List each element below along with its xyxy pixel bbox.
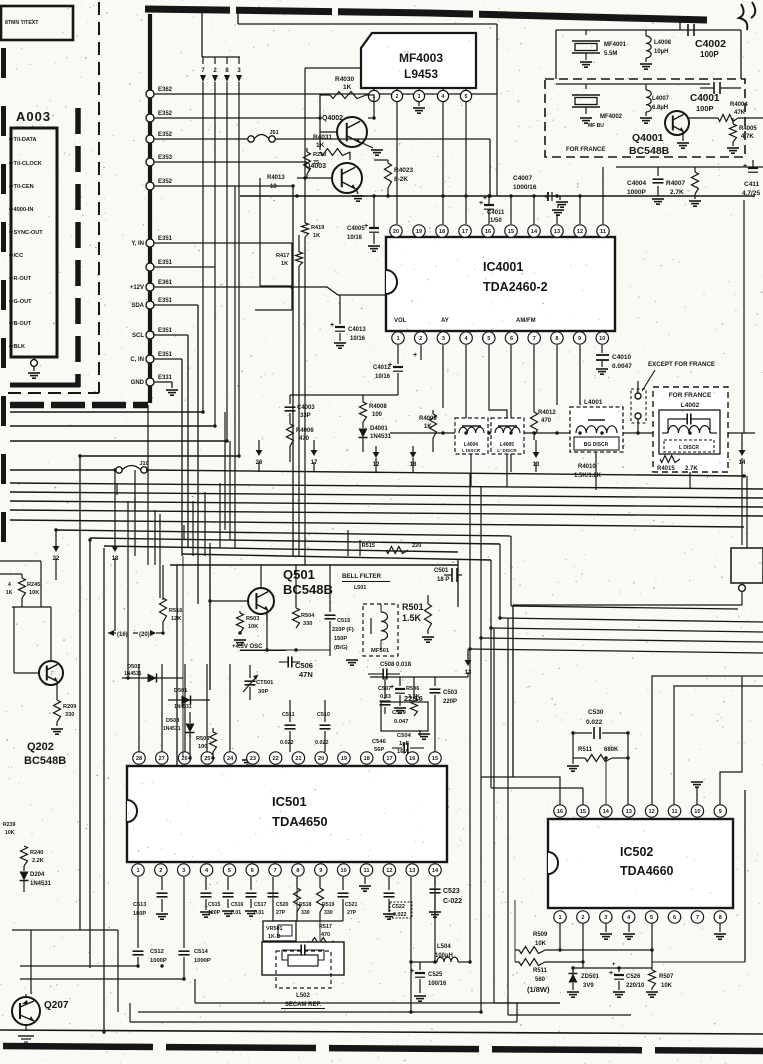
pin12 wire bbox=[652, 676, 763, 805]
capacitor C525 100/16 bbox=[419, 962, 421, 970]
capacitor C4011b pin3 bbox=[442, 345, 444, 408]
svg-text:VOL: VOL bbox=[394, 318, 407, 324]
svg-text:1000P: 1000P bbox=[627, 189, 646, 196]
svg-text:10µH: 10µH bbox=[654, 49, 668, 55]
svg-text:C4004: C4004 bbox=[627, 180, 647, 187]
small box right edge bbox=[746, 476, 748, 548]
svg-text:R504: R504 bbox=[301, 613, 315, 619]
svg-text:56P: 56P bbox=[374, 747, 384, 753]
svg-text:C525: C525 bbox=[428, 972, 443, 978]
arrow 18b bbox=[114, 470, 116, 541]
svg-text:R4006: R4006 bbox=[296, 428, 314, 434]
svg-text:3: 3 bbox=[442, 336, 445, 342]
svg-text:12K: 12K bbox=[171, 616, 181, 622]
svg-text:C4007: C4007 bbox=[513, 175, 533, 182]
svg-text:30P: 30P bbox=[258, 689, 268, 695]
Q501 wires bbox=[260, 565, 262, 588]
connector pin E351 bbox=[146, 301, 154, 309]
resistor R519 330 bbox=[319, 877, 321, 888]
svg-text:E351: E351 bbox=[158, 236, 173, 242]
svg-text:13: 13 bbox=[409, 868, 415, 874]
svg-text:0.01: 0.01 bbox=[231, 910, 241, 916]
svg-text:47N: 47N bbox=[299, 670, 313, 679]
svg-text:1N4531: 1N4531 bbox=[30, 881, 52, 887]
svg-text:0.0047: 0.0047 bbox=[612, 363, 632, 370]
svg-text:BC548B: BC548B bbox=[629, 145, 670, 157]
svg-text:1K: 1K bbox=[6, 590, 13, 596]
resistor R4007 2.7K bbox=[694, 167, 696, 172]
svg-text:L' DISCR: L' DISCR bbox=[497, 448, 517, 453]
svg-text:R511: R511 bbox=[533, 968, 548, 974]
svg-text:100: 100 bbox=[372, 412, 383, 418]
svg-text:C, IN: C, IN bbox=[130, 357, 144, 363]
svg-text:9: 9 bbox=[319, 868, 322, 874]
svg-text:22: 22 bbox=[273, 756, 279, 762]
svg-text:470: 470 bbox=[299, 436, 310, 442]
ground stubs near pins bbox=[242, 759, 254, 761]
svg-text:6.8µH: 6.8µH bbox=[652, 105, 668, 111]
svg-text:+: + bbox=[390, 684, 394, 691]
svg-text:C522: C522 bbox=[392, 904, 405, 910]
connector pin E351 bbox=[146, 355, 154, 363]
svg-text:R239: R239 bbox=[3, 822, 16, 828]
svg-text:10/16: 10/16 bbox=[375, 374, 391, 380]
diode D503 1N4531 bbox=[186, 724, 195, 733]
svg-text:TDA4660: TDA4660 bbox=[620, 864, 674, 878]
connector pin E362 bbox=[146, 90, 154, 98]
capacitor C517 0.01 bbox=[250, 877, 252, 890]
svg-text:L DISCR: L DISCR bbox=[679, 445, 699, 451]
svg-text:5.5M: 5.5M bbox=[604, 51, 617, 57]
svg-text:R-OUT: R-OUT bbox=[14, 276, 32, 282]
top pin bundle 7 2 8 3 bbox=[201, 12, 203, 57]
svg-text:10: 10 bbox=[694, 809, 700, 815]
transistor Q4001 france bbox=[665, 111, 689, 135]
bus line 5 bbox=[10, 510, 763, 516]
capacitor C4004 1000P bbox=[657, 167, 659, 176]
connector pin E352 bbox=[146, 182, 154, 190]
jumper J10 bbox=[116, 467, 122, 473]
svg-text:1K: 1K bbox=[424, 424, 432, 430]
capacitor C526 220/10 bbox=[618, 968, 620, 972]
wires from pin bundle down bbox=[202, 82, 204, 412]
bus wires horizontal staircase bbox=[10, 411, 203, 413]
svg-text:1000/16: 1000/16 bbox=[513, 184, 537, 191]
svg-text:C4003: C4003 bbox=[297, 405, 315, 411]
svg-text:11: 11 bbox=[364, 868, 370, 874]
wire pin3 down bbox=[183, 877, 185, 948]
wire C IN bbox=[154, 358, 182, 360]
left lower wires bbox=[12, 929, 118, 931]
pin11 ground bbox=[364, 877, 366, 884]
mid right verticals down bbox=[469, 473, 471, 962]
svg-text:C514: C514 bbox=[194, 949, 209, 955]
svg-text:C510: C510 bbox=[317, 712, 330, 718]
wire E353 row bbox=[154, 161, 307, 163]
svg-text:10: 10 bbox=[599, 336, 605, 342]
discriminator through wire bbox=[390, 432, 755, 434]
svg-text:J10: J10 bbox=[140, 461, 149, 467]
svg-text:1: 1 bbox=[136, 868, 139, 874]
long node wire y196 bbox=[240, 195, 755, 197]
svg-text:+4.3V OSC: +4.3V OSC bbox=[232, 644, 263, 650]
svg-text:C504: C504 bbox=[397, 733, 412, 739]
svg-text:C521: C521 bbox=[345, 902, 358, 908]
svg-text:470: 470 bbox=[541, 418, 552, 424]
row wire bbox=[273, 920, 343, 922]
svg-text:24: 24 bbox=[227, 756, 234, 762]
svg-text:C516: C516 bbox=[231, 902, 244, 908]
svg-text:Q207: Q207 bbox=[44, 1000, 69, 1011]
bus line 7 bbox=[56, 530, 511, 536]
svg-text:E351: E351 bbox=[158, 328, 173, 334]
wire Y IN bbox=[154, 242, 292, 244]
module box 8TMN T/TEXT bbox=[1, 6, 73, 40]
svg-text:R516: R516 bbox=[169, 608, 182, 614]
svg-text:L4008: L4008 bbox=[654, 40, 672, 46]
resistor R210 75 bbox=[306, 148, 308, 152]
svg-text:L502: L502 bbox=[296, 993, 310, 999]
capacitor C511 0.022 bbox=[289, 700, 291, 722]
svg-text:(16): (16) bbox=[117, 632, 128, 638]
svg-text:C4005: C4005 bbox=[347, 226, 365, 232]
diode D502 1N4531 bbox=[122, 677, 183, 679]
box around secam area bottom bbox=[130, 1021, 517, 1023]
svg-text:FOR FRANCE: FOR FRANCE bbox=[566, 147, 605, 153]
svg-text:10/16: 10/16 bbox=[347, 235, 363, 241]
wire pin14 to L504 bbox=[411, 961, 437, 963]
wires above IC502 bbox=[481, 777, 560, 805]
svg-text:16: 16 bbox=[557, 809, 563, 815]
connector pin E352 bbox=[146, 114, 154, 122]
svg-text:17: 17 bbox=[462, 229, 468, 235]
svg-text:E361: E361 bbox=[158, 280, 173, 286]
svg-text:10: 10 bbox=[270, 184, 277, 190]
svg-text:9: 9 bbox=[578, 336, 581, 342]
transistor Q501 bbox=[248, 588, 274, 614]
svg-text:16V: 16V bbox=[397, 749, 407, 755]
capacitor C4013 10/16 bbox=[339, 295, 341, 324]
diode D204 1N4531 bbox=[20, 872, 29, 881]
svg-text:+: + bbox=[410, 968, 414, 975]
svg-text:1µF: 1µF bbox=[399, 741, 410, 747]
wire to pin14 IC502 bbox=[605, 758, 607, 805]
IC502 bottom wires bbox=[559, 923, 561, 950]
svg-text:220/10: 220/10 bbox=[626, 983, 645, 989]
svg-text:R4023: R4023 bbox=[394, 167, 414, 174]
svg-text:560: 560 bbox=[535, 977, 546, 983]
svg-text:CT501: CT501 bbox=[256, 680, 274, 686]
Q4003 emitter ground bbox=[356, 188, 358, 194]
svg-text:BLK: BLK bbox=[14, 344, 26, 350]
zener ZD501 3V9 bbox=[569, 974, 578, 983]
svg-text:IC4001: IC4001 bbox=[483, 260, 523, 274]
ground at GND pin bbox=[154, 381, 172, 383]
svg-text:7: 7 bbox=[696, 915, 699, 921]
svg-text:R4009: R4009 bbox=[419, 416, 437, 422]
svg-text:4.7/25: 4.7/25 bbox=[742, 190, 760, 197]
svg-text:R4013: R4013 bbox=[267, 175, 285, 181]
block Q501 outline bbox=[170, 564, 458, 566]
discr box tails bbox=[689, 472, 691, 489]
svg-text:L DISCR: L DISCR bbox=[462, 448, 481, 453]
svg-text:C513: C513 bbox=[133, 902, 146, 908]
svg-text:6: 6 bbox=[251, 868, 254, 874]
wires pins 28-24 up bbox=[138, 664, 140, 752]
wire top of caps bbox=[370, 676, 468, 678]
wire pin5 to L4005 bbox=[489, 345, 507, 418]
svg-text:16: 16 bbox=[485, 229, 491, 235]
transistor Q202 bbox=[39, 661, 63, 685]
enclosing box right bbox=[744, 790, 746, 962]
wire pin1 down bbox=[137, 877, 139, 948]
svg-text:R4007: R4007 bbox=[666, 180, 686, 187]
svg-text:C4011: C4011 bbox=[487, 210, 505, 216]
wire stubs left of IC4001 bbox=[259, 178, 261, 286]
svg-text:1000P: 1000P bbox=[150, 958, 167, 964]
right side long wires bbox=[500, 618, 763, 622]
svg-text:C4010: C4010 bbox=[612, 354, 632, 361]
svg-text:10K: 10K bbox=[248, 624, 258, 630]
svg-text:26: 26 bbox=[181, 756, 187, 762]
svg-text:R419: R419 bbox=[311, 225, 324, 231]
svg-text:2: 2 bbox=[419, 336, 422, 342]
crystal MF4002 bbox=[585, 84, 587, 89]
svg-text:BC548B: BC548B bbox=[24, 755, 66, 767]
svg-text:220: 220 bbox=[412, 543, 421, 549]
E-connector column bbox=[148, 14, 152, 403]
connector pin E351 bbox=[146, 263, 154, 271]
svg-text:3: 3 bbox=[182, 868, 185, 874]
jumper J51 bbox=[248, 136, 254, 142]
wire pin13 down bbox=[410, 877, 412, 1012]
capacitor C515 220P bbox=[329, 565, 331, 612]
svg-text:C520: C520 bbox=[276, 902, 289, 908]
bus left corner verticals bbox=[79, 456, 81, 930]
svg-text:(20): (20) bbox=[139, 632, 150, 638]
svg-text:L4007: L4007 bbox=[652, 96, 670, 102]
svg-text:1K: 1K bbox=[316, 142, 325, 149]
svg-text:2.7K: 2.7K bbox=[685, 466, 698, 472]
resistor R503 10K bbox=[239, 611, 241, 613]
svg-text:C546: C546 bbox=[372, 739, 387, 745]
wire E352 row to R4030 circuit bbox=[154, 117, 320, 119]
svg-text:10/16: 10/16 bbox=[350, 336, 366, 342]
svg-text:SDA: SDA bbox=[131, 303, 144, 309]
svg-text:3V9: 3V9 bbox=[583, 983, 594, 989]
svg-text:R506: R506 bbox=[406, 686, 419, 692]
box MF4003 L9453 bbox=[361, 33, 476, 88]
wire MF4003 left stub bbox=[305, 67, 361, 69]
IC4001 TDA2460-2 bbox=[386, 237, 615, 331]
thick hatched bus bar bbox=[10, 402, 148, 409]
svg-text:12: 12 bbox=[577, 229, 583, 235]
wire pin5 down bbox=[465, 102, 467, 224]
svg-text:27: 27 bbox=[159, 756, 165, 762]
arrow 13 bbox=[533, 452, 540, 458]
svg-text:R517: R517 bbox=[319, 924, 332, 930]
bus line 9 bbox=[104, 546, 458, 552]
svg-text:330: 330 bbox=[303, 621, 312, 627]
svg-text:EXCEPT FOR FRANCE: EXCEPT FOR FRANCE bbox=[648, 361, 715, 368]
wire pin8 to L4001 bbox=[556, 345, 558, 405]
svg-text:C523: C523 bbox=[443, 888, 460, 895]
svg-text:AY: AY bbox=[441, 318, 449, 324]
svg-text:13: 13 bbox=[554, 229, 560, 235]
svg-text:27P: 27P bbox=[347, 910, 357, 916]
resistor R515 220 on bus bbox=[386, 547, 408, 554]
svg-text:10K: 10K bbox=[5, 830, 15, 836]
bus line 8 bbox=[90, 538, 500, 544]
pin5 wire down bbox=[651, 923, 653, 968]
wire E351 row 2 bbox=[154, 266, 215, 268]
svg-text:18 P: 18 P bbox=[437, 577, 449, 583]
crystal box L502 SECAM REF bbox=[262, 942, 344, 975]
svg-text:L504: L504 bbox=[437, 944, 451, 950]
arrow 18 bbox=[410, 452, 417, 458]
svg-text:7: 7 bbox=[533, 336, 536, 342]
left dashed border bar bbox=[1, 48, 6, 560]
diode D4001 1N4531 bbox=[359, 429, 368, 438]
svg-text:8-2K: 8-2K bbox=[394, 176, 408, 183]
svg-text:C515: C515 bbox=[208, 902, 221, 908]
capacitor C4010 0.0047 bbox=[601, 345, 603, 353]
svg-text:VR501: VR501 bbox=[266, 926, 282, 932]
capacitor C522 0.022 bbox=[388, 877, 390, 890]
svg-text:20: 20 bbox=[318, 756, 324, 762]
resistor R419 1K bbox=[304, 178, 306, 223]
svg-text:Q202: Q202 bbox=[27, 741, 54, 753]
svg-text:5: 5 bbox=[465, 94, 468, 100]
svg-text:A003: A003 bbox=[16, 109, 51, 124]
svg-text:+: + bbox=[743, 163, 747, 170]
outer dashed frame bbox=[98, 2, 100, 393]
svg-text:4: 4 bbox=[8, 582, 11, 588]
svg-text:4: 4 bbox=[442, 94, 445, 100]
capacitor C513 180P bbox=[161, 877, 163, 890]
capacitor C512 1000P bbox=[133, 950, 144, 952]
svg-text:1K: 1K bbox=[313, 233, 320, 239]
resistor R4008 100 bbox=[362, 395, 364, 402]
IC502 top pins 16-9 bbox=[554, 805, 566, 817]
bus line with J10 bbox=[10, 469, 117, 471]
svg-text:R4031: R4031 bbox=[313, 134, 333, 141]
A003 connector box bbox=[11, 128, 57, 357]
svg-text:SYNC-OUT: SYNC-OUT bbox=[14, 230, 44, 236]
arrow 17 bbox=[311, 450, 318, 456]
svg-text:3: 3 bbox=[418, 94, 421, 100]
svg-text:0.047: 0.047 bbox=[394, 719, 409, 725]
below IC4001: C4012 10/16 bbox=[397, 345, 399, 364]
svg-text:8TMN T/TEXT: 8TMN T/TEXT bbox=[5, 20, 39, 26]
svg-text:R245: R245 bbox=[27, 582, 40, 588]
MF4003 pin3 ground bbox=[418, 102, 420, 106]
arrow 12 bbox=[373, 452, 380, 458]
transistor Q4002 bbox=[337, 117, 367, 147]
svg-text:D204: D204 bbox=[30, 872, 45, 878]
svg-text:R4015: R4015 bbox=[657, 466, 675, 472]
svg-text:12: 12 bbox=[648, 809, 654, 815]
resistor R517 470 bbox=[319, 921, 321, 941]
svg-text:19: 19 bbox=[416, 229, 422, 235]
filter MF501 bbox=[363, 604, 398, 656]
svg-text:E351: E351 bbox=[158, 352, 173, 358]
svg-text:470: 470 bbox=[321, 932, 330, 938]
osc rail bbox=[240, 649, 330, 651]
svg-text:7: 7 bbox=[274, 868, 277, 874]
resistor R417 1K bbox=[298, 235, 300, 252]
svg-text:4000-IN: 4000-IN bbox=[14, 207, 34, 213]
pin3 pin4 grounds bbox=[605, 923, 607, 932]
svg-text:8: 8 bbox=[555, 336, 558, 342]
svg-text:0.022: 0.022 bbox=[393, 912, 407, 918]
svg-text:GND: GND bbox=[131, 380, 145, 386]
svg-text:2: 2 bbox=[396, 94, 399, 100]
svg-text:330: 330 bbox=[301, 910, 310, 916]
svg-text:14: 14 bbox=[432, 868, 439, 874]
svg-text:R4030: R4030 bbox=[335, 76, 355, 83]
svg-text:(1/8W): (1/8W) bbox=[527, 985, 550, 994]
arrow 26 bbox=[256, 450, 263, 456]
svg-text:10: 10 bbox=[341, 868, 347, 874]
wire pin4 to L4004 bbox=[465, 345, 467, 418]
ground near pin13 bbox=[557, 204, 559, 208]
bus line 4 bbox=[10, 501, 763, 507]
svg-text:E352: E352 bbox=[158, 111, 173, 117]
svg-text:11: 11 bbox=[672, 809, 678, 815]
svg-text:100P: 100P bbox=[696, 104, 714, 113]
svg-text:6: 6 bbox=[510, 336, 513, 342]
connector pin E352 bbox=[146, 135, 154, 143]
svg-text:680K: 680K bbox=[604, 747, 619, 753]
wire pin9 to node bbox=[579, 345, 581, 405]
top right crystal section wire bbox=[556, 29, 741, 31]
wire E352 row 5 bbox=[154, 185, 293, 187]
connector pin E361 bbox=[146, 283, 154, 291]
svg-text:17: 17 bbox=[386, 756, 392, 762]
A003 BLK pin node bbox=[33, 357, 35, 360]
bus line 2 bbox=[10, 483, 763, 489]
svg-text:R4008: R4008 bbox=[369, 404, 387, 410]
resistor R4006 470 bbox=[287, 424, 294, 446]
svg-text:11: 11 bbox=[600, 229, 606, 235]
svg-text:150P: 150P bbox=[334, 636, 347, 642]
svg-text:R4012: R4012 bbox=[538, 410, 556, 416]
svg-text:0.022: 0.022 bbox=[315, 740, 329, 746]
svg-text:20: 20 bbox=[393, 229, 399, 235]
wire pin6 down bbox=[510, 345, 512, 472]
capacitor C503 220P bbox=[434, 677, 436, 686]
svg-text:2: 2 bbox=[159, 868, 162, 874]
svg-text:13: 13 bbox=[626, 809, 632, 815]
svg-text:28: 28 bbox=[136, 756, 142, 762]
crystal MF4001 5.5M bbox=[585, 30, 587, 35]
resistor R518 330 bbox=[296, 877, 298, 888]
svg-text:2: 2 bbox=[581, 915, 584, 921]
svg-text:E352: E352 bbox=[158, 179, 173, 185]
svg-text:8: 8 bbox=[719, 915, 722, 921]
svg-text:1/50: 1/50 bbox=[490, 218, 502, 224]
svg-text:C501: C501 bbox=[434, 568, 449, 574]
svg-text:19: 19 bbox=[341, 756, 347, 762]
svg-text:10K: 10K bbox=[535, 941, 547, 947]
IC502 bottom pins 1-8 bbox=[554, 911, 566, 923]
svg-text:C4002: C4002 bbox=[695, 38, 726, 50]
svg-text:220P (F): 220P (F) bbox=[332, 627, 354, 633]
svg-text:R503: R503 bbox=[246, 616, 259, 622]
resistor R4005 4.7K bbox=[732, 118, 734, 124]
capacitor C516 0.01 bbox=[227, 877, 229, 890]
